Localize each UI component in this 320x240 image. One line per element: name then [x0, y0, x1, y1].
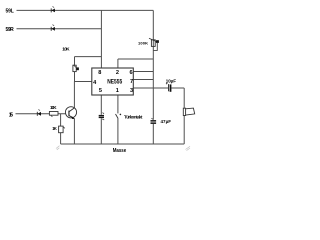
- svg-text:6: 6: [130, 70, 133, 76]
- svg-text:8: 8: [98, 70, 101, 76]
- svg-text:10µF: 10µF: [166, 78, 177, 83]
- svg-text:1: 1: [116, 88, 119, 94]
- svg-text:3: 3: [130, 88, 133, 94]
- svg-text:10K: 10K: [62, 47, 70, 52]
- svg-text:5: 5: [99, 88, 102, 94]
- svg-text:NE555: NE555: [107, 79, 123, 85]
- svg-text:7: 7: [130, 79, 133, 85]
- svg-text:Türkontakt: Türkontakt: [124, 115, 143, 120]
- svg-text:15: 15: [9, 112, 13, 118]
- svg-text:59L: 59L: [6, 8, 14, 14]
- svg-text:2: 2: [116, 70, 119, 76]
- svg-text:Masse: Masse: [113, 148, 127, 154]
- svg-text:10K: 10K: [50, 105, 57, 110]
- svg-text:100K: 100K: [138, 41, 148, 46]
- svg-text:59R: 59R: [6, 27, 15, 33]
- svg-text:47µF: 47µF: [161, 119, 172, 124]
